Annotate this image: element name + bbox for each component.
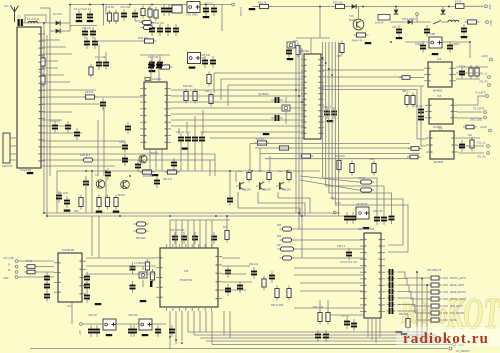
wire caps down 4 bbox=[201, 145, 203, 171]
capacitor C29 bbox=[178, 133, 184, 145]
label R50 R51 bbox=[271, 304, 284, 307]
wire X1-4 bbox=[10, 159, 17, 161]
crystal Q1 top bbox=[287, 42, 295, 48]
capacitor C40 bbox=[396, 25, 402, 37]
voltage regulator VR1 bbox=[187, 2, 200, 13]
label R41 bbox=[223, 226, 228, 229]
resistor R12b bbox=[207, 72, 211, 87]
capacitor C12c bbox=[165, 24, 171, 36]
svg-text:+5V: +5V bbox=[78, 330, 81, 335]
transistor T3 bbox=[121, 180, 130, 189]
wire bus bot 2 bbox=[194, 334, 436, 336]
connector out7 bbox=[489, 129, 492, 132]
svg-text:U16 1.1: U16 1.1 bbox=[323, 106, 332, 109]
wire amp v2 bbox=[91, 171, 93, 213]
wire ic6 o3 bbox=[458, 152, 484, 154]
capacitor C62b bbox=[44, 290, 50, 302]
capacitor C39 bbox=[381, 213, 387, 225]
wire row2 bbox=[70, 25, 97, 27]
label C54 C55 bbox=[170, 229, 185, 232]
wire row3 bbox=[97, 40, 143, 42]
wire remote bbox=[390, 21, 431, 23]
capacitor C11 bbox=[211, 4, 217, 16]
capacitor CT3 on TDA out bbox=[387, 282, 396, 288]
svg-text:VOL_R1: VOL_R1 bbox=[477, 157, 487, 159]
wire tuner p3 bbox=[41, 53, 72, 55]
capacitor C52b bbox=[105, 168, 111, 180]
resistor R12 bbox=[209, 92, 213, 107]
wire ic1-ic9 c bbox=[86, 273, 156, 275]
junction node 19 bbox=[226, 215, 228, 217]
capacitor C22 bbox=[65, 121, 71, 133]
svg-text:C3b C3b: C3b C3b bbox=[201, 55, 211, 57]
capacitor C36 bbox=[271, 97, 283, 103]
wire AGC loop bbox=[25, 15, 46, 23]
capacitor C62 bbox=[44, 280, 50, 292]
svg-text:VR1 7808: VR1 7808 bbox=[186, 13, 198, 17]
resistor RO5 bbox=[428, 304, 442, 308]
wire C28 up bbox=[158, 72, 160, 82]
label +5V A bbox=[78, 330, 81, 335]
ground VR2 bbox=[189, 67, 196, 69]
label C55x bbox=[337, 246, 346, 248]
voltage regulator VR3 bbox=[103, 319, 116, 330]
resistor R50 bbox=[275, 286, 279, 301]
label C46 bbox=[414, 105, 424, 108]
IC IC2 LA3361 bbox=[140, 82, 171, 149]
label GND out bbox=[458, 343, 464, 347]
wire bus mid 1 bbox=[44, 212, 340, 214]
switch S1 bbox=[433, 21, 441, 25]
wire X1-2 bbox=[10, 145, 17, 147]
label R44 bbox=[26, 260, 33, 263]
label VR5 bbox=[430, 32, 436, 36]
ground mcu right bbox=[327, 120, 334, 122]
junction node 27 bbox=[331, 74, 333, 76]
label R24 bbox=[352, 39, 363, 43]
wire ic1-ic9 a bbox=[86, 257, 156, 259]
ground T16 bbox=[365, 42, 372, 44]
junction node 14 bbox=[286, 170, 288, 172]
capacitor C49r bbox=[459, 140, 465, 152]
resistor R54 bbox=[406, 316, 410, 331]
resistor R31 bbox=[97, 195, 101, 210]
wire q3a bbox=[142, 266, 144, 270]
resistor R30 bbox=[79, 195, 83, 210]
capacitor C58 bbox=[130, 262, 136, 274]
ground IC2 bottom bbox=[152, 174, 159, 176]
capacitor C30 bbox=[185, 133, 191, 145]
wire D2 left bbox=[50, 30, 56, 32]
wire c31 bbox=[194, 116, 196, 134]
svg-text:C36 10n: C36 10n bbox=[414, 105, 424, 108]
capacitor C27 above IC2 bbox=[148, 60, 154, 72]
label KA2247 bbox=[20, 168, 31, 172]
wire if h1 bbox=[214, 72, 304, 74]
capacitor C36b mcu right bbox=[324, 107, 330, 119]
svg-text:IC6: IC6 bbox=[438, 127, 443, 131]
svg-text:FRONT: FRONT bbox=[2, 164, 12, 168]
svg-text:BA4560: BA4560 bbox=[434, 160, 444, 164]
wire IC9 top 5 bbox=[193, 220, 195, 248]
label out REAR_LEFT1 bbox=[450, 284, 465, 287]
resistor RO1 bbox=[428, 276, 442, 280]
transistor T1 bbox=[139, 155, 147, 163]
wire ro out 2 bbox=[443, 284, 448, 286]
wire left vertical bus a bbox=[43, 23, 45, 213]
wire ic4 o3 bbox=[456, 78, 480, 80]
label L1 4.7uH bbox=[27, 17, 39, 21]
ground Q1 bbox=[287, 58, 294, 60]
connector +5V in bbox=[80, 323, 83, 326]
wire mcu low3 bbox=[260, 153, 420, 155]
wire stack4 bbox=[294, 257, 364, 259]
resistor R30r bbox=[463, 125, 477, 129]
label IC1 bbox=[67, 304, 72, 308]
wire caps down 3 bbox=[194, 145, 196, 171]
wire tuner p12 bbox=[41, 119, 62, 121]
svg-text:+(12V): +(12V) bbox=[481, 56, 488, 58]
wire mcu left v2 bbox=[298, 45, 300, 213]
wire bus bot 5 bbox=[212, 344, 452, 346]
capacitor C61 bbox=[44, 272, 50, 284]
label C73-C76 4.7uF bbox=[340, 261, 358, 264]
wire tda low2 bbox=[330, 314, 364, 316]
wire tda out 5 bbox=[397, 298, 429, 306]
wire bus IF-MCU 2 bbox=[171, 95, 304, 97]
svg-text:R30: R30 bbox=[74, 210, 79, 213]
capacitor C37b mcu right bbox=[331, 107, 337, 119]
wire bundle v2 bbox=[325, 42, 327, 176]
label PCM2702 bbox=[180, 278, 193, 282]
label R6 bbox=[138, 36, 149, 40]
label R35 bbox=[238, 171, 243, 173]
wire mcu-ic5 a bbox=[321, 85, 424, 87]
capacitor C3 bbox=[87, 10, 93, 22]
capacitor C24 bbox=[100, 98, 106, 110]
resistor R44b bbox=[24, 270, 38, 274]
svg-text:RV2 4k7: RV2 4k7 bbox=[80, 153, 90, 157]
wire tda right v3 bbox=[426, 285, 428, 343]
wire c30 bbox=[186, 122, 188, 134]
wire left vertical bus c bbox=[49, 8, 51, 176]
ground C40 bbox=[396, 37, 403, 39]
wire tuner p1 bbox=[41, 39, 60, 41]
label IC4 bbox=[437, 57, 442, 61]
wire ic4 o1 bbox=[456, 66, 488, 68]
label R65 bbox=[337, 55, 342, 58]
svg-text:R16 R17: R16 R17 bbox=[256, 138, 266, 141]
wire bus IF-MCU 5 bbox=[171, 113, 304, 115]
wire usb1 bbox=[18, 260, 54, 262]
diode D6 remote bbox=[408, 20, 413, 25]
capacitor C41b bbox=[461, 24, 467, 36]
svg-text:R21: R21 bbox=[370, 158, 375, 161]
svg-text:Q2 8MHz: Q2 8MHz bbox=[258, 92, 270, 96]
label C38 C39 bbox=[373, 210, 383, 213]
wire ro out 5 bbox=[443, 305, 448, 307]
ground VR5 bbox=[432, 53, 439, 55]
svg-text:C21 C22: C21 C22 bbox=[50, 120, 60, 123]
wire rail drop 222 bbox=[221, 5, 223, 32]
svg-text:C46 C47: C46 C47 bbox=[88, 314, 98, 317]
wire bus drop a bbox=[298, 213, 300, 229]
svg-text:C1: C1 bbox=[17, 15, 21, 19]
svg-text:T16: T16 bbox=[349, 14, 354, 18]
wire ic9 r1 bbox=[222, 265, 250, 267]
label T16 bbox=[349, 14, 354, 18]
resistor R23m bbox=[399, 76, 413, 80]
junction node 29 bbox=[175, 339, 177, 341]
wire IC9 bottom 6 bbox=[199, 311, 201, 332]
wire IC9 bottom 2 bbox=[175, 311, 177, 345]
junction node 15 bbox=[43, 212, 45, 214]
wire tda b1 bbox=[367, 318, 369, 337]
svg-text:RV1 4k7: RV1 4k7 bbox=[135, 19, 145, 23]
wire tuner p19 bbox=[41, 165, 115, 167]
capacitor CT4 on TDA out bbox=[387, 289, 396, 295]
resistor R18 bbox=[299, 154, 314, 158]
capacitor C64 bbox=[84, 272, 90, 284]
junction node 26 bbox=[328, 68, 330, 70]
label out MUTE bbox=[450, 320, 457, 322]
capacitor C15 bbox=[84, 37, 90, 49]
resistor R22b bbox=[372, 161, 376, 176]
voltage regulator VR2 bbox=[188, 53, 201, 64]
junction node 3 bbox=[151, 4, 153, 6]
label R15 bbox=[293, 40, 298, 43]
label R1 R2 bbox=[106, 5, 114, 9]
connector USB GND bbox=[15, 276, 18, 279]
svg-text:LA3361: LA3361 bbox=[152, 77, 162, 81]
wire tuner p9 bbox=[41, 96, 143, 98]
wire rail vert bbox=[319, 7, 321, 39]
capacitor VR2 C a bbox=[202, 56, 208, 68]
label VR2 bbox=[201, 55, 211, 57]
svg-text:X1 12MHz: X1 12MHz bbox=[134, 262, 146, 265]
wire mcu-ic4 a bbox=[321, 69, 424, 71]
wire if h3 bbox=[228, 84, 304, 86]
capacitor C39c bbox=[346, 248, 352, 260]
wire amp v3 bbox=[105, 176, 107, 198]
resistor R27 bbox=[411, 93, 415, 108]
capacitor C19 bbox=[149, 58, 155, 70]
connector USB D+ bbox=[15, 271, 18, 274]
IC tuner KA2247 bbox=[17, 27, 45, 168]
svg-text:R50 1k R51: R50 1k R51 bbox=[271, 304, 284, 307]
label R9 bbox=[85, 90, 94, 94]
wire if up3 bbox=[227, 85, 229, 106]
wire ic9 r5 bbox=[222, 257, 240, 259]
ground C19 bbox=[149, 70, 156, 72]
wire if up1 bbox=[213, 73, 215, 93]
ground Q2 bbox=[263, 133, 270, 135]
resistor R14 bbox=[165, 170, 180, 174]
label U5 bbox=[375, 22, 384, 25]
svg-text:SUB_RIGHT1: SUB_RIGHT1 bbox=[450, 313, 465, 315]
wire ic56 v1 bbox=[416, 90, 418, 140]
wire mcu-ic4 b bbox=[321, 76, 402, 78]
wire vr2 out bbox=[199, 57, 205, 59]
capacitor C12d bbox=[173, 24, 179, 36]
wire ic2 b3 bbox=[161, 149, 163, 171]
label IC2 name bbox=[152, 77, 162, 81]
ground caps row bbox=[182, 148, 189, 150]
capacitor C14 bbox=[90, 27, 96, 39]
junction node 2 bbox=[102, 4, 104, 6]
label C25 bbox=[119, 140, 124, 144]
junction node 10 bbox=[105, 170, 107, 172]
ground C10 bbox=[203, 16, 210, 18]
label IC6 name bbox=[434, 160, 444, 164]
label R23 bbox=[333, 1, 343, 5]
wire IC9 bottom 8 bbox=[211, 311, 213, 345]
resistor R43 bbox=[145, 259, 149, 273]
resistor R31r bbox=[470, 137, 474, 151]
svg-text:GND: GND bbox=[3, 277, 9, 280]
capacitor C55 bbox=[181, 232, 187, 244]
label IC5 name bbox=[433, 125, 443, 129]
wire r41 up bbox=[226, 216, 228, 229]
svg-text:IC4: IC4 bbox=[437, 57, 442, 61]
junction node 5 bbox=[43, 22, 45, 24]
label IC8 TDA7440 bbox=[358, 227, 375, 231]
label R30 bbox=[74, 210, 79, 213]
svg-text:BA4560: BA4560 bbox=[433, 89, 443, 93]
svg-text:Т-СХЕМА: Т-СХЕМА bbox=[104, 4, 107, 15]
junction node 33 bbox=[395, 6, 397, 8]
ground R54 bbox=[401, 333, 408, 335]
resistor R19v bbox=[408, 147, 422, 151]
wire nest 5 bbox=[335, 176, 408, 252]
label IC1 name above bbox=[62, 249, 74, 252]
capacitor C72 bbox=[269, 271, 275, 283]
label C77 C78 bbox=[341, 315, 350, 318]
wire X1-3 bbox=[10, 153, 17, 155]
IC IC9 PCM2702 bbox=[156, 244, 222, 311]
ground amp g3 bbox=[113, 211, 120, 213]
wire bus IF-MCU 7 bbox=[171, 125, 304, 127]
label FRONT bbox=[2, 164, 12, 168]
svg-text:Ant: Ant bbox=[4, 4, 9, 8]
resistor R32 bbox=[105, 195, 109, 210]
wire IC9 br b bbox=[229, 311, 231, 338]
junction node 6 bbox=[89, 4, 91, 6]
wire bundle v3 bbox=[328, 42, 330, 176]
junction node 38 bbox=[301, 215, 303, 217]
label T3 BC847 bbox=[118, 194, 126, 197]
label IC9 bbox=[184, 269, 189, 273]
svg-text:VOL_L1: VOL_L1 bbox=[477, 143, 486, 145]
wire vr5 right bbox=[442, 41, 470, 43]
label C71 bbox=[249, 263, 259, 266]
watermark logo glow bbox=[398, 289, 500, 332]
wire IC9 bottom 5 bbox=[193, 311, 195, 335]
resistor R46 bbox=[280, 238, 295, 242]
wire tda out 3 bbox=[397, 285, 429, 292]
wire D1 right bbox=[61, 22, 71, 24]
svg-text:C38 C39: C38 C39 bbox=[373, 210, 383, 213]
label 10u bbox=[459, 66, 466, 68]
capacitor C41 bbox=[424, 25, 430, 37]
svg-text:KA2247: KA2247 bbox=[20, 168, 31, 172]
transistor T6 bbox=[276, 182, 284, 190]
wire T4 out stair bbox=[238, 192, 300, 216]
svg-text:R54 100: R54 100 bbox=[399, 313, 409, 316]
ground amp g1 bbox=[64, 210, 71, 212]
wire bundle v4 bbox=[331, 42, 333, 176]
wire q3b bbox=[142, 280, 144, 287]
wire tda b4 bbox=[379, 318, 381, 337]
wire vert x103 bbox=[102, 5, 104, 26]
label R70-R80 475 bbox=[427, 269, 442, 272]
capacitor C48r bbox=[459, 67, 465, 79]
resistor R2 bbox=[114, 10, 118, 24]
label C29-C32 bbox=[176, 132, 191, 134]
svg-text:JA1458 RD: JA1458 RD bbox=[62, 249, 74, 252]
label R37 bbox=[278, 171, 283, 173]
resistor R33 bbox=[114, 195, 118, 210]
label C17 C18 bbox=[95, 55, 106, 59]
capacitor C70 bbox=[155, 325, 161, 337]
resistor R13 bbox=[140, 170, 155, 174]
connector USB D- bbox=[15, 265, 18, 268]
svg-text:R22 1k: R22 1k bbox=[258, 1, 267, 5]
wire ic5 up bbox=[478, 96, 485, 105]
wire bus bot 3 bbox=[200, 337, 445, 339]
wire ic56 v2 bbox=[420, 86, 422, 146]
wire ic1 down bbox=[71, 302, 73, 324]
svg-text:BC847: BC847 bbox=[118, 194, 126, 197]
wire left vertical bus b bbox=[46, 35, 48, 216]
resistor R65 bbox=[340, 41, 344, 56]
resistor R29r bbox=[475, 65, 479, 79]
capacitor C31 bbox=[192, 133, 198, 145]
capacitor C26 bbox=[122, 154, 128, 166]
capacitor C71 bbox=[251, 267, 257, 279]
capacitor C79 bbox=[344, 317, 350, 329]
capacitor C42 bbox=[420, 41, 426, 53]
resistor R51 bbox=[287, 286, 291, 301]
svg-text:C90 10u: C90 10u bbox=[249, 263, 259, 266]
svg-text:R34 47k: R34 47k bbox=[163, 178, 173, 181]
resistor R40b bbox=[358, 188, 375, 192]
label R19 R20 bbox=[335, 155, 345, 158]
wire bus IF-MCU 6 bbox=[171, 119, 304, 121]
svg-text:D1 D2: D1 D2 bbox=[53, 12, 62, 16]
wire mcu left v3 bbox=[301, 48, 303, 216]
capacitor CT6 on TDA out bbox=[387, 302, 396, 308]
capacitor C37 bbox=[271, 115, 283, 121]
wire drop d1 bbox=[249, 144, 251, 172]
wire IC9 top 2 bbox=[175, 220, 177, 248]
IC IC6 BA4560 bbox=[426, 131, 458, 159]
capacitor C17 bbox=[96, 58, 102, 70]
svg-text:R52 100k: R52 100k bbox=[313, 306, 324, 309]
resistor R37 bbox=[287, 170, 291, 183]
capacitor C10 bbox=[203, 4, 209, 16]
wire top rail +12V bbox=[70, 4, 231, 6]
capacitor VR2 C b bbox=[210, 56, 216, 68]
svg-text:R26 R26: R26 R26 bbox=[183, 85, 193, 88]
wire nest 2 bbox=[326, 176, 384, 214]
capacitor C51b bbox=[56, 191, 62, 203]
wire D2 right bbox=[61, 30, 71, 32]
svg-text:VOL_L1: VOL_L1 bbox=[479, 74, 488, 76]
svg-text:R26: R26 bbox=[205, 90, 210, 93]
svg-text:U8 78L05: U8 78L05 bbox=[356, 202, 368, 206]
label out4 bbox=[475, 93, 487, 95]
